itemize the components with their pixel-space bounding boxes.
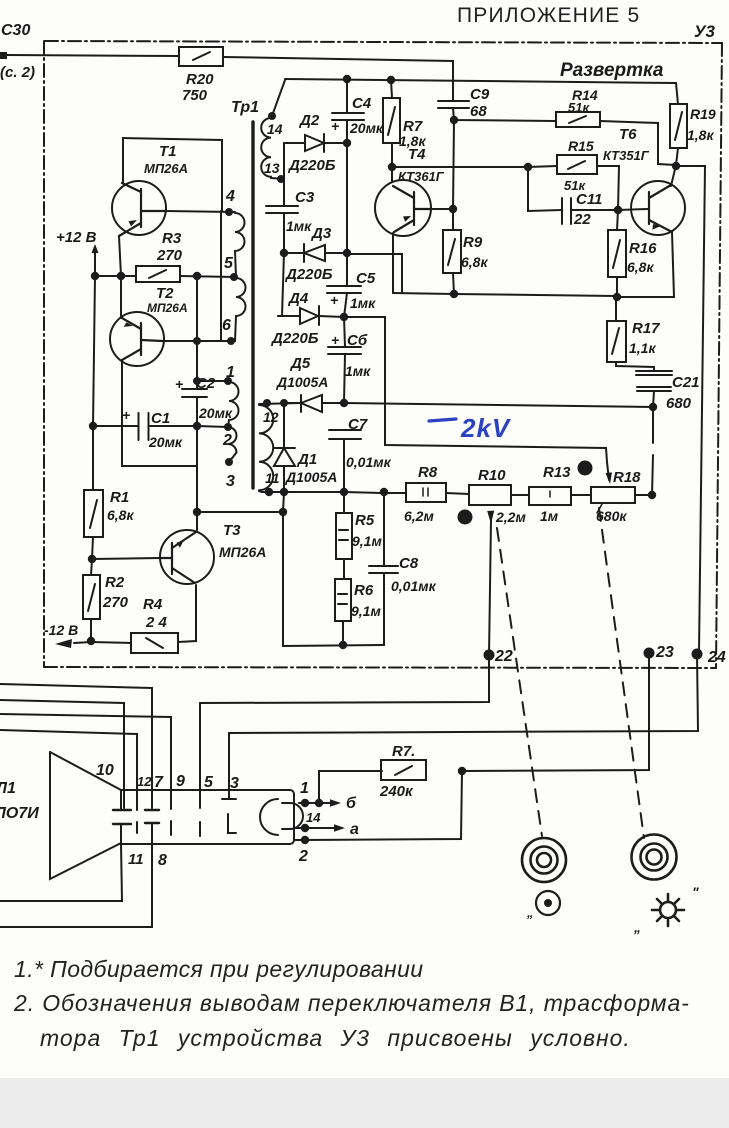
svg-text:5: 5 — [204, 774, 214, 791]
capacitor C7 — [329, 429, 361, 431]
junction C1/C2 — [193, 422, 201, 430]
svg-text:R16: R16 — [629, 240, 657, 257]
svg-text:1.* Подбирается при регулиро: 1.* Подбирается при регулировании — [14, 956, 424, 982]
wire D2 anode branch down — [283, 143, 285, 206]
wire R15 right down to C11 node — [597, 166, 619, 210]
transformer core — [251, 122, 254, 488]
wire R13-R18 — [571, 494, 591, 496]
svg-text:1: 1 — [300, 780, 309, 797]
capacitor C6 — [344, 317, 345, 347]
svg-text:Д2: Д2 — [298, 112, 320, 129]
wire T1 below to +12 rail — [119, 236, 121, 276]
resistor R19 — [676, 83, 678, 104]
electrode dash pin9 — [170, 821, 172, 835]
knob control 2 — [632, 835, 677, 880]
winding 5-6 — [235, 278, 246, 341]
pin 13 — [271, 178, 284, 179]
svg-text:2kV: 2kV — [460, 413, 512, 443]
svg-text:1м: 1м — [540, 508, 559, 524]
pin 14 wire to top rail — [272, 80, 285, 116]
capacitor C21 — [636, 370, 672, 372]
wire T4 base row to R15 — [392, 166, 557, 167]
resistor R7 bottom — [381, 760, 426, 780]
svg-text:С3: С3 — [295, 189, 315, 206]
svg-text:+: + — [175, 376, 183, 392]
svg-text:С7: С7 — [348, 416, 368, 433]
junction C2 column / pin6 wire — [193, 337, 201, 345]
bottom rail R5/R6/C8 — [283, 645, 384, 646]
svg-text:680: 680 — [666, 395, 692, 412]
svg-text:1: 1 — [226, 364, 235, 381]
svg-text:-12 В: -12 В — [44, 622, 78, 638]
svg-text:МП26А: МП26А — [144, 161, 188, 176]
junction D5 cathode / C7 top — [340, 399, 348, 407]
resistor R20 — [179, 47, 223, 66]
arrow b — [319, 802, 331, 804]
svg-text:22: 22 — [494, 648, 513, 665]
svg-text:8ЛО7И: 8ЛО7И — [0, 805, 39, 822]
svg-text:Д3: Д3 — [310, 225, 332, 242]
pin 11 — [259, 491, 262, 492]
CRT neck top — [121, 790, 294, 844]
pin 1 — [301, 799, 309, 807]
terminal square C30 — [0, 52, 7, 59]
svg-text:3: 3 — [226, 473, 235, 490]
symbol focus dot — [536, 891, 560, 915]
wire pin1 stub — [197, 380, 228, 382]
svg-text:а: а — [350, 821, 359, 838]
svg-text:1,1к: 1,1к — [629, 340, 656, 356]
CRT heater horseshoe — [282, 803, 303, 829]
resistor R16 — [617, 210, 618, 230]
wire rail crossing to pin5 handled above; vertical pin4-pin6 column — [220, 211, 222, 341]
electrode dash pin5 — [199, 822, 201, 836]
adjustment dot R8 — [458, 510, 473, 525]
pin 6 — [227, 337, 235, 345]
resistor R9 — [443, 230, 461, 273]
svg-text:R3: R3 — [162, 230, 182, 247]
junction R15 left — [524, 163, 532, 171]
svg-text:R5: R5 — [355, 512, 375, 529]
junction T3 collector node — [193, 508, 201, 516]
pin 12 — [259, 403, 301, 404]
wire pin12 entry — [0, 730, 137, 810]
junction +12/R1 column — [91, 272, 99, 280]
wire terminal22 down to pin5 row — [200, 655, 489, 703]
wire C9 column to R9 — [453, 120, 454, 209]
svg-text:2: 2 — [222, 432, 232, 449]
svg-text:Тр1: Тр1 — [231, 99, 259, 116]
svg-text:14: 14 — [306, 810, 321, 825]
svg-text:С9: С9 — [470, 86, 490, 103]
dashed pointer R10 to knob — [497, 528, 542, 836]
wire C5 node to R18 wiper feed — [344, 317, 607, 462]
svg-text:Т2: Т2 — [156, 285, 174, 302]
svg-text:С2: С2 — [196, 375, 216, 392]
wire T3 collector up — [196, 426, 198, 530]
terminal 24 — [692, 649, 703, 660]
resistor R7 — [391, 80, 392, 98]
svg-text:6,8к: 6,8к — [107, 507, 134, 523]
wire C1 row — [93, 425, 138, 427]
svg-text:С8: С8 — [399, 555, 419, 572]
resistor R14 — [556, 112, 600, 127]
svg-text:Т1: Т1 — [159, 143, 177, 160]
wire R4 to T3 emitter — [178, 585, 196, 642]
wire T4 collector down — [392, 233, 394, 293]
electrode dash pin12 — [136, 822, 138, 833]
winding 14-13 — [261, 118, 271, 178]
svg-text:С4: С4 — [352, 95, 372, 112]
svg-text:R6: R6 — [354, 582, 374, 599]
svg-text:С21: С21 — [672, 374, 700, 391]
wire T3 base — [92, 558, 160, 559]
junction C11 right / T6 base — [614, 206, 622, 214]
resistor R13 — [529, 487, 571, 505]
wire T3 collector to D1 column — [197, 511, 283, 513]
junction R19 bottom / T6 collector — [671, 148, 678, 186]
capacitor C5 — [346, 253, 348, 286]
svg-text:КТ361Г: КТ361Г — [398, 169, 445, 184]
svg-text:6: 6 — [222, 317, 231, 334]
svg-text:R2: R2 — [105, 574, 125, 591]
svg-text:10: 10 — [96, 762, 114, 779]
terminal 22 — [484, 650, 495, 661]
svg-text:Д1005А: Д1005А — [285, 469, 337, 485]
svg-text:7: 7 — [154, 774, 164, 791]
symbol brightness sun — [652, 894, 684, 926]
wire C2 to C1 node — [196, 397, 198, 426]
svg-text:Развертка: Развертка — [560, 60, 664, 81]
svg-text:24: 24 — [707, 649, 726, 666]
svg-text:1,8к: 1,8к — [687, 127, 714, 143]
svg-text:С11: С11 — [576, 191, 602, 208]
svg-text:5: 5 — [224, 255, 234, 272]
svg-text:R9: R9 — [463, 234, 483, 251]
junction R7 right — [458, 767, 466, 775]
pin 1 wire to R7 — [305, 771, 382, 803]
scanner gray band at page bottom — [0, 1078, 729, 1128]
svg-text:тора Тр1 устройства У3 при: тора Тр1 устройства У3 присвоены условно… — [40, 1025, 631, 1051]
svg-text:Д4: Д4 — [287, 290, 309, 307]
wire R8-R10 — [446, 493, 469, 494]
svg-text:R8: R8 — [418, 464, 438, 481]
svg-text:КТ351Г: КТ351Г — [603, 148, 650, 163]
svg-text:2: 2 — [298, 848, 308, 865]
svg-text:11: 11 — [265, 470, 280, 486]
svg-text:Д1005А: Д1005А — [276, 374, 328, 390]
capacitor C3 — [266, 205, 298, 207]
wire pin3 riser — [228, 733, 230, 796]
transistor T3 — [160, 530, 214, 584]
svg-text:Д220Б: Д220Б — [287, 157, 336, 174]
CRT funnel — [50, 752, 121, 879]
svg-text:0,01мк: 0,01мк — [391, 578, 437, 594]
svg-text:Т4: Т4 — [408, 146, 426, 163]
wire R20 to C9 — [223, 57, 453, 100]
resistor R4 — [91, 642, 131, 643]
dash-dot frame border — [44, 41, 722, 668]
pin 2 wire to R7 right — [305, 771, 462, 840]
wire T1 emitter to pin4 — [165, 211, 235, 212]
pin 4 — [225, 208, 233, 216]
capacitor C1 — [138, 413, 140, 440]
resistor R3 — [136, 266, 180, 282]
wire +12 rail down to C1 — [93, 276, 95, 426]
pin 2 — [224, 423, 232, 431]
wire T2 collector up to rail — [120, 276, 122, 318]
junction T4 base — [388, 163, 396, 171]
junction pin1 branch — [193, 377, 201, 385]
wire R17 to C21 — [616, 362, 654, 371]
blue annotation -2kV — [429, 419, 456, 421]
wire C21 node down to R18 — [652, 407, 653, 495]
electrode bar pin7/8 — [145, 809, 159, 811]
svg-text:С5: С5 — [356, 270, 376, 287]
svg-text:2,2м: 2,2м — [495, 509, 526, 525]
svg-text:9: 9 — [176, 773, 185, 790]
winding 4-5 — [235, 213, 245, 277]
svg-text:МП26А: МП26А — [219, 544, 266, 560]
wire T6 emitter down to R16 rail — [618, 232, 674, 297]
svg-text:Д1: Д1 — [296, 451, 317, 468]
pin 2 — [301, 836, 309, 844]
wire R10-R13 — [511, 494, 529, 496]
transistor T4 — [375, 180, 431, 236]
resistor R10 — [469, 485, 511, 505]
pin 3 — [225, 458, 233, 466]
electrode bracket pin3 — [222, 799, 236, 833]
resistor R17 — [615, 297, 617, 321]
resistor R6 — [335, 579, 351, 621]
R10 wiper arrow — [487, 511, 494, 524]
svg-text:+12 В: +12 В — [56, 229, 97, 246]
bottom rail winding to R8 — [262, 492, 406, 493]
resistor R18 — [591, 487, 635, 503]
wire plate entry — [0, 700, 124, 808]
transistor T6 — [631, 181, 685, 235]
svg-text:Сб: Сб — [347, 332, 368, 349]
winding 12-11 — [259, 405, 273, 490]
wire T4 emitter to R9 — [431, 208, 453, 210]
svg-text:+: + — [331, 332, 339, 348]
wire C9 to R14 — [453, 108, 556, 121]
svg-text:23: 23 — [655, 644, 674, 661]
node R7 top — [387, 76, 395, 84]
svg-text:Д5: Д5 — [289, 355, 311, 372]
capacitor C9 — [438, 100, 469, 102]
pin 1 stub — [294, 803, 305, 840]
svg-text:Л1: Л1 — [0, 780, 16, 797]
svg-text:R15: R15 — [568, 138, 594, 154]
svg-text:0,01мк: 0,01мк — [346, 454, 392, 470]
svg-text:R17: R17 — [632, 320, 660, 337]
dashed pointer R18 to knob — [599, 508, 644, 838]
junction C1 left — [89, 422, 97, 430]
resistor R5 — [336, 513, 352, 559]
svg-text:Д220Б: Д220Б — [284, 266, 333, 283]
wire T2 emitter to pin6 — [163, 340, 235, 342]
CRT plate pair pin10/11 — [113, 809, 131, 811]
junction T1 column on rail — [117, 272, 125, 280]
bus C4 to D3 — [346, 143, 348, 253]
knob control 1 — [522, 838, 566, 882]
wire pin7 entry — [0, 684, 152, 808]
wire R14 right to R19 node — [600, 121, 676, 165]
svg-text:б: б — [346, 795, 357, 812]
svg-text:4: 4 — [225, 188, 235, 205]
svg-text:": " — [692, 884, 699, 900]
wire R19 node to right column — [676, 166, 705, 652]
wire pin8 return loop — [0, 844, 152, 927]
svg-text:С1: С1 — [151, 410, 170, 427]
svg-text:ПРИЛОЖЕНИЕ 5: ПРИЛОЖЕНИЕ 5 — [457, 4, 640, 27]
wire R7 to T4 base — [391, 143, 393, 182]
resistor R2 — [91, 559, 92, 575]
capacitor C4 — [346, 79, 348, 113]
wire R18 right — [635, 494, 652, 496]
svg-text:R10: R10 — [478, 467, 506, 484]
junction pin12 branch — [280, 488, 288, 496]
svg-text:750: 750 — [182, 87, 208, 104]
transistor T1 — [112, 181, 166, 235]
svg-text:R18: R18 — [613, 469, 641, 486]
wire pin5 riser — [199, 703, 201, 808]
svg-text:9,1м: 9,1м — [352, 533, 382, 549]
junction D4/C5/C6 — [340, 313, 348, 321]
svg-text:6,8к: 6,8к — [627, 259, 654, 275]
node C4 top — [343, 75, 351, 83]
capacitor C11 — [561, 198, 563, 224]
svg-text:20мк: 20мк — [349, 120, 384, 136]
svg-text:1мк: 1мк — [286, 218, 312, 234]
svg-text:МП26А: МП26А — [147, 301, 188, 315]
svg-text:(с. 2): (с. 2) — [0, 64, 35, 81]
svg-text:12: 12 — [263, 409, 279, 425]
wire C2 column — [196, 276, 198, 389]
arrow into R18 wiper — [606, 472, 613, 484]
svg-text:+: + — [122, 407, 130, 423]
svg-text:R7.: R7. — [392, 743, 415, 760]
svg-text:Т6: Т6 — [619, 126, 637, 143]
winding 2-3 — [228, 427, 237, 462]
wire pin9 entry — [0, 714, 171, 809]
junction D2 cathode — [343, 139, 351, 147]
svg-text:240к: 240к — [379, 783, 414, 800]
HV wire to C21 — [344, 403, 653, 407]
svg-text:R1: R1 — [110, 489, 129, 506]
wire R15 left down to C11 — [528, 167, 562, 211]
junction C21 bottom — [649, 403, 657, 411]
capacitor C8 — [383, 492, 385, 566]
svg-text:13: 13 — [264, 160, 280, 176]
wire D3 node to T4 collector drop — [347, 254, 402, 293]
svg-text:R20: R20 — [186, 71, 214, 88]
svg-text:„: „ — [633, 919, 641, 935]
+12 rail wire — [95, 264, 136, 276]
-12V supply arrow — [90, 619, 92, 641]
capacitor C2 — [182, 388, 207, 390]
pin 5 — [230, 273, 238, 281]
terminal 23 — [644, 648, 655, 659]
resistor R1 — [92, 426, 94, 490]
svg-text:С30: С30 — [1, 22, 30, 39]
wire terminal24 down to pin3 row — [229, 654, 698, 733]
wire T6 base — [618, 209, 648, 210]
wire T2 bottom to T3 collector column — [122, 360, 197, 466]
junction below C9 — [450, 116, 458, 124]
svg-text:20мк: 20мк — [198, 405, 233, 421]
resistor R8 — [406, 483, 446, 502]
svg-text:68: 68 — [470, 103, 487, 120]
adjustment dot R18 — [578, 461, 593, 476]
resistor R15 — [557, 155, 597, 174]
svg-text:6,8к: 6,8к — [461, 254, 488, 270]
svg-text:20мк: 20мк — [148, 434, 183, 450]
transistor T2 — [110, 312, 164, 366]
svg-text:51к: 51к — [568, 100, 590, 115]
svg-text:270: 270 — [156, 247, 183, 264]
svg-text:1мк: 1мк — [345, 363, 371, 379]
svg-text:2. Обозначения выводам перек: 2. Обозначения выводам переключателя В1,… — [13, 990, 690, 1016]
svg-text:+: + — [330, 292, 338, 308]
svg-text:6,2м: 6,2м — [404, 508, 434, 524]
wire terminal23 down to R7 row — [462, 653, 649, 771]
CRT cathode arc — [260, 799, 278, 835]
svg-text:9,1м: 9,1м — [351, 603, 381, 619]
top rail wire — [285, 79, 676, 83]
pin 1 — [224, 377, 232, 385]
svg-text:1мк: 1мк — [350, 295, 376, 311]
wire T1 collector loop box — [123, 138, 222, 211]
svg-text:+: + — [331, 118, 339, 134]
svg-text:14: 14 — [267, 121, 283, 137]
svg-text:2 4: 2 4 — [145, 614, 168, 631]
svg-text:У3: У3 — [694, 22, 716, 41]
svg-text:12: 12 — [137, 774, 152, 789]
svg-text:„: „ — [526, 905, 534, 920]
wire pin11 return loop — [0, 844, 122, 901]
emitter rail R9..R16 — [393, 293, 616, 296]
svg-text:270: 270 — [102, 594, 129, 611]
svg-text:R19: R19 — [690, 106, 716, 122]
svg-text:3: 3 — [230, 775, 239, 792]
svg-text:8: 8 — [158, 852, 167, 869]
junction R3 right / C2 column — [193, 272, 201, 280]
svg-text:11: 11 — [128, 851, 144, 868]
wire C30 to R20 — [7, 55, 179, 56]
wire D4 anode from pin13 column — [278, 253, 284, 316]
wire D1 column down to R6 rail — [283, 492, 284, 646]
winding 1-2 — [228, 382, 239, 427]
svg-text:R13: R13 — [543, 464, 571, 481]
svg-text:Д220Б: Д220Б — [270, 330, 319, 347]
svg-text:R4: R4 — [143, 596, 163, 613]
svg-text:22: 22 — [573, 211, 591, 228]
svg-text:Т3: Т3 — [223, 522, 241, 539]
arrow a — [305, 827, 335, 829]
junction T3 base — [92, 537, 93, 559]
